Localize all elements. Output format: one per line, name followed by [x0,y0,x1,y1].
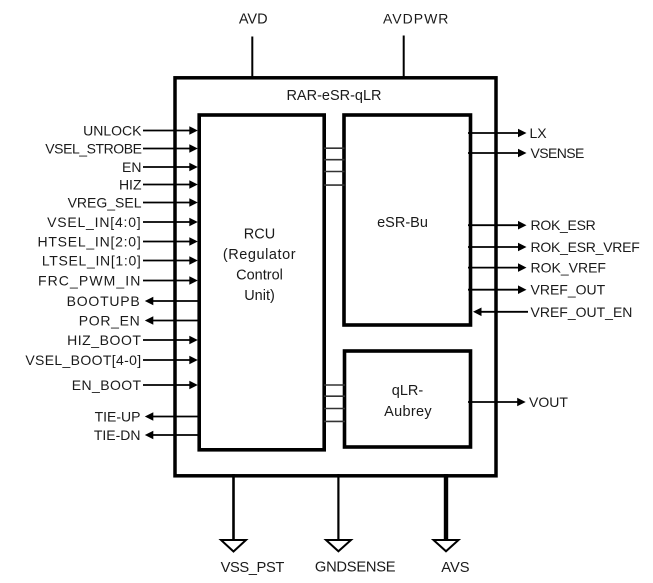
svg-text:VSS_PST: VSS_PST [221,560,285,576]
wire RCU to eSR-Bu 2 [324,159,345,161]
svg-text:VSEL_STROBE: VSEL_STROBE [45,141,141,157]
pin VSS_PST [221,474,285,576]
svg-text:qLR-: qLR- [392,383,424,399]
pin HTSEL_IN[2:0] [37,234,197,250]
wire RCU to eSR-Bu 1 [324,147,345,149]
wire RCU to eSR-Bu 4 [324,184,345,186]
svg-text:AVD: AVD [239,12,268,28]
svg-text:VREF_OUT: VREF_OUT [531,282,606,298]
block RCU (Regulator Control Unit) [199,115,324,450]
svg-text:EN_BOOT: EN_BOOT [72,377,142,393]
svg-text:VSEL_IN[4:0]: VSEL_IN[4:0] [47,214,141,230]
pin EN [122,159,198,175]
svg-text:VSEL_BOOT[4-0]: VSEL_BOOT[4-0] [25,352,141,368]
svg-text:eSR-Bu: eSR-Bu [377,215,428,231]
wire RCU to qLR-Aubrey 4 [324,420,345,422]
pin AVD [239,12,268,80]
block qLR-Aubrey [345,351,471,447]
svg-text:TIE-UP: TIE-UP [95,409,141,425]
svg-text:RCU: RCU [244,227,275,243]
pin VREF_OUT_EN [473,304,632,320]
pin AVDPWR [383,11,449,80]
svg-text:Unit): Unit) [244,288,275,304]
svg-text:ROK_VREF: ROK_VREF [531,260,606,276]
svg-text:LTSEL_IN[1:0]: LTSEL_IN[1:0] [42,253,142,269]
pin LX [468,125,547,141]
pin ROK_VREF [468,260,606,276]
wire RCU to qLR-Aubrey 1 [324,384,345,386]
svg-text:EN: EN [122,159,141,175]
pin VSEL_BOOT[4-0] [25,352,197,368]
svg-text:AVS: AVS [441,560,470,576]
svg-text:VREF_OUT_EN: VREF_OUT_EN [531,304,633,320]
svg-text:(Regulator: (Regulator [223,247,296,263]
svg-text:GNDSENSE: GNDSENSE [315,560,396,576]
wire RCU to eSR-Bu 3 [324,171,345,173]
svg-text:HTSEL_IN[2:0]: HTSEL_IN[2:0] [37,234,141,250]
svg-text:HIZ_BOOT: HIZ_BOOT [67,332,141,348]
pin POR_EN [79,313,199,329]
outer block RAR-eSR-qLR [175,78,496,476]
svg-text:POR_EN: POR_EN [79,313,141,329]
pin UNLOCK [83,123,198,139]
pin ROK_ESR [468,217,596,233]
svg-text:BOOTUPB: BOOTUPB [67,293,141,309]
svg-text:ROK_ESR_VREF: ROK_ESR_VREF [531,239,640,255]
svg-text:VOUT: VOUT [529,394,568,410]
svg-text:VSENSE: VSENSE [531,145,584,161]
pin GNDSENSE [315,474,396,576]
svg-text:LX: LX [530,125,548,141]
pin TIE-DN [94,427,199,443]
block eSR-Bu [344,115,471,325]
pin EN_BOOT [72,377,198,393]
svg-text:AVDPWR: AVDPWR [383,11,449,27]
pin VOUT [468,394,568,410]
pin FRC_PWM_IN [38,273,198,289]
pin LTSEL_IN[1:0] [42,253,198,269]
pin HIZ [119,177,198,193]
pin ROK_ESR_VREF [468,239,640,255]
svg-text:ROK_ESR: ROK_ESR [531,217,596,233]
svg-text:Control: Control [236,268,283,284]
wire RCU to qLR-Aubrey 3 [324,408,345,410]
wire RCU to qLR-Aubrey 2 [324,395,345,397]
svg-text:UNLOCK: UNLOCK [83,123,142,139]
pin VSEL_STROBE [45,141,198,157]
pin AVS [434,474,470,576]
svg-text:HIZ: HIZ [119,177,142,193]
pin BOOTUPB [67,293,199,309]
pin VREG_SEL [68,195,198,211]
pin VREF_OUT [468,282,606,298]
svg-text:FRC_PWM_IN: FRC_PWM_IN [38,273,142,289]
svg-text:VREG_SEL: VREG_SEL [68,195,142,211]
pin TIE-UP [95,409,199,425]
pin VSEL_IN[4:0] [47,214,198,230]
svg-text:TIE-DN: TIE-DN [94,427,141,443]
svg-text:Aubrey: Aubrey [384,404,432,420]
pin VSENSE [468,145,584,161]
pin HIZ_BOOT [67,332,198,348]
svg-text:RAR-eSR-qLR: RAR-eSR-qLR [286,88,381,104]
